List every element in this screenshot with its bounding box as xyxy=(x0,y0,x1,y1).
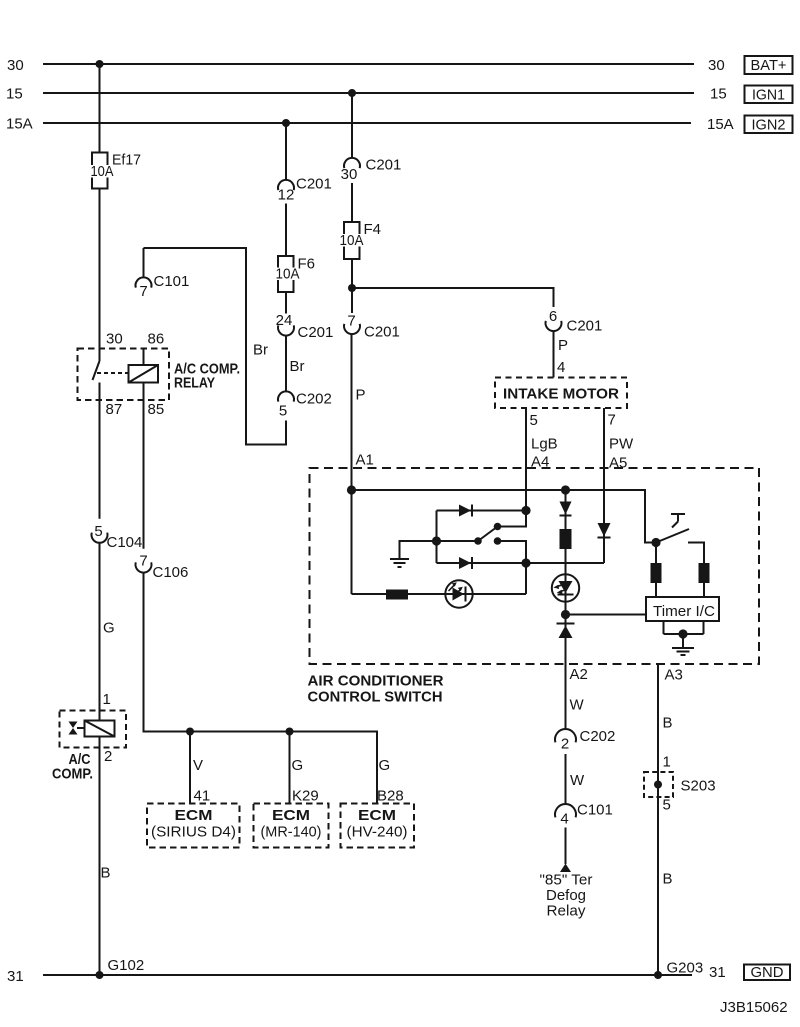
svg-text:A2: A2 xyxy=(570,666,588,683)
svg-text:C201: C201 xyxy=(296,176,332,193)
svg-text:C202: C202 xyxy=(580,728,616,745)
connector C201 pin12 xyxy=(278,176,332,204)
svg-text:AIR CONDITIONER: AIR CONDITIONER xyxy=(308,673,444,690)
fuse Ef17 10A xyxy=(89,152,142,189)
bus 15A xyxy=(6,116,734,134)
svg-text:C201: C201 xyxy=(366,157,402,174)
intake motor M1 xyxy=(495,378,627,409)
off-page arrow to defog relay xyxy=(540,864,593,920)
node G102 xyxy=(96,957,145,979)
wire feed to intake motor C201-6 xyxy=(352,288,554,307)
connector C201 pin24 xyxy=(276,312,334,341)
connector C101 pin7 xyxy=(136,248,190,300)
svg-text:7: 7 xyxy=(347,313,355,330)
connector C202 pin5 xyxy=(278,391,332,420)
svg-text:C101: C101 xyxy=(154,273,190,290)
ECM (MR-140) box xyxy=(254,804,329,848)
svg-text:K29: K29 xyxy=(292,788,319,805)
svg-text:7: 7 xyxy=(608,412,616,429)
wire upper diode row xyxy=(437,510,527,512)
relay K1 A/C COMP. RELAY box xyxy=(78,349,241,401)
resistor R3 xyxy=(651,563,662,583)
svg-text:G: G xyxy=(379,757,391,774)
wire C202-2 to C101-4, label W xyxy=(566,754,586,805)
ground G2 timer xyxy=(672,634,694,655)
svg-text:CONTROL SWITCH: CONTROL SWITCH xyxy=(308,689,443,706)
svg-text:ECM: ECM xyxy=(272,807,310,824)
resistor R1 xyxy=(386,590,408,600)
wire A1 from C201-7 into control switch, labels P A1 xyxy=(352,334,374,594)
svg-text:P: P xyxy=(356,387,366,404)
wire R4 to timer xyxy=(703,583,705,597)
svg-text:6: 6 xyxy=(549,308,557,325)
svg-text:G: G xyxy=(103,620,115,637)
svg-text:C104: C104 xyxy=(107,534,143,551)
svg-text:ECM: ECM xyxy=(175,807,213,824)
diode D3 on A5 xyxy=(598,523,611,538)
wire F6 to C201-24 xyxy=(285,292,287,314)
connector C202 pin2 xyxy=(555,728,615,753)
svg-text:A1: A1 xyxy=(356,452,374,469)
node LED2 / timer junction xyxy=(561,610,570,619)
svg-text:2: 2 xyxy=(561,736,569,753)
svg-text:30: 30 xyxy=(7,57,24,74)
svg-text:S203: S203 xyxy=(681,778,716,795)
svg-text:86: 86 xyxy=(148,331,165,348)
wire drop to ECM mr140, labels G K29 xyxy=(290,732,319,805)
svg-text:30: 30 xyxy=(106,331,123,348)
wire bus30 to fuse Ef17 xyxy=(99,64,101,153)
diode D4 xyxy=(560,502,572,516)
diode D1 xyxy=(459,505,472,517)
wire switch left link xyxy=(436,511,438,564)
connector C101 pin4 xyxy=(555,802,613,828)
svg-text:C101: C101 xyxy=(577,802,613,819)
svg-text:10A: 10A xyxy=(340,232,364,249)
svg-text:G203: G203 xyxy=(667,960,704,977)
wire bus15 to C201-30 xyxy=(351,93,353,158)
wire timer ground stubs xyxy=(664,621,704,634)
svg-text:C201: C201 xyxy=(567,318,603,335)
svg-text:B: B xyxy=(101,865,111,882)
wire C104 to A/C COMP, label G xyxy=(100,543,115,721)
bus 31 ground xyxy=(7,964,726,985)
wire C201-30 to fuse F4 xyxy=(351,183,353,222)
svg-text:F6: F6 xyxy=(298,256,316,273)
wire LED column xyxy=(565,490,567,615)
node bus30/Ef17 junction xyxy=(96,60,104,68)
wire junction to Timer IC xyxy=(566,614,647,616)
diode D2 xyxy=(459,557,472,569)
LED LED1 xyxy=(445,580,472,607)
svg-text:"85" Ter: "85" Ter xyxy=(540,872,593,889)
wire top rail A1 to push switch xyxy=(352,490,657,543)
svg-text:41: 41 xyxy=(194,788,211,805)
svg-text:Br: Br xyxy=(253,342,268,359)
wire C101-4 to defog relay arrow xyxy=(565,828,567,865)
labels G B28 for ECM hv240 xyxy=(377,757,404,805)
resistor R4 xyxy=(699,563,710,583)
node A4 / upper diode junction xyxy=(521,506,530,515)
svg-text:C202: C202 xyxy=(296,391,332,408)
node A1 rail junction xyxy=(347,485,356,494)
wire A2 out of box, labels A2 W xyxy=(566,615,588,730)
svg-text:B: B xyxy=(663,715,673,732)
svg-text:15: 15 xyxy=(710,86,727,103)
svg-text:1: 1 xyxy=(663,754,671,771)
wire R3 to timer xyxy=(655,583,657,597)
fuse F4 10A xyxy=(340,221,382,259)
svg-text:GND: GND xyxy=(751,964,784,981)
svg-text:G102: G102 xyxy=(108,957,145,974)
wire relay 85 down to C106 xyxy=(143,383,145,549)
node lower row junction xyxy=(521,558,530,567)
LED LED2 xyxy=(552,574,579,601)
wire Br loop C101 to C202 xyxy=(144,248,287,445)
svg-text:85: 85 xyxy=(148,401,165,418)
svg-text:F4: F4 xyxy=(364,221,382,238)
svg-text:5: 5 xyxy=(94,523,102,540)
splice S203 xyxy=(644,772,716,797)
svg-text:B28: B28 xyxy=(377,788,404,805)
node bus15A / C201-12 junction xyxy=(282,119,290,127)
svg-text:4: 4 xyxy=(560,811,568,828)
resistor R2 xyxy=(560,529,572,549)
wire A1 bottom row xyxy=(352,593,527,595)
air conditioner control switch box U2 xyxy=(308,468,760,706)
A/C COMP compressor clutch xyxy=(52,711,126,783)
svg-text:LgB: LgB xyxy=(531,436,558,453)
wire intake pin7 to A5, labels 7 PW A5 xyxy=(604,408,634,563)
svg-text:C106: C106 xyxy=(153,564,189,581)
wire relay 87 down to C104 xyxy=(99,383,101,519)
svg-text:RELAY: RELAY xyxy=(174,375,215,392)
svg-text:31: 31 xyxy=(709,964,726,981)
svg-text:(SIRIUS D4): (SIRIUS D4) xyxy=(151,824,236,841)
node ECM branch V junction xyxy=(186,728,194,736)
wire S2 to resistor R3 xyxy=(655,543,657,564)
terminal box IGN1 xyxy=(745,86,793,104)
bus 30 xyxy=(7,57,725,74)
svg-text:COMP.: COMP. xyxy=(52,766,93,783)
svg-text:INTAKE MOTOR: INTAKE MOTOR xyxy=(503,386,619,403)
connector C201 pin6 xyxy=(546,308,603,335)
svg-text:30: 30 xyxy=(341,166,358,183)
timer U1 Timer I/C xyxy=(646,597,719,621)
svg-text:J3B15062: J3B15062 xyxy=(720,999,788,1016)
node bus15 / ignition branch junction xyxy=(348,89,356,97)
svg-text:15A: 15A xyxy=(707,116,734,133)
svg-text:10A: 10A xyxy=(91,163,114,180)
svg-text:G: G xyxy=(292,757,304,774)
node rail / LED column junction xyxy=(561,485,570,494)
svg-text:87: 87 xyxy=(106,401,123,418)
node ECM branch G junction xyxy=(286,728,294,736)
svg-text:10A: 10A xyxy=(276,266,300,283)
svg-text:7: 7 xyxy=(139,553,147,570)
svg-text:W: W xyxy=(570,697,585,714)
svg-text:5: 5 xyxy=(663,797,671,814)
svg-text:(MR-140): (MR-140) xyxy=(261,824,322,841)
svg-text:IGN2: IGN2 xyxy=(752,117,786,134)
svg-text:Timer I/C: Timer I/C xyxy=(653,603,715,620)
connector C201 pin30 xyxy=(341,157,402,184)
wire bottom row riser xyxy=(525,563,527,594)
wire bus15A to C201-12 xyxy=(285,123,287,181)
svg-text:4: 4 xyxy=(557,359,565,376)
connector C104 pin5 xyxy=(91,523,142,551)
svg-text:A3: A3 xyxy=(665,667,683,684)
svg-text:BAT+: BAT+ xyxy=(751,57,787,74)
diode D5 on A2 xyxy=(557,624,575,639)
wire A/C COMP pin2 to bus31, label B xyxy=(100,737,113,976)
svg-text:(HV-240): (HV-240) xyxy=(347,824,408,841)
terminal box GND xyxy=(744,964,790,981)
svg-text:1: 1 xyxy=(103,691,111,708)
node intake feed junction xyxy=(348,284,356,292)
svg-text:PW: PW xyxy=(609,436,634,453)
push switch S2 xyxy=(651,514,704,563)
svg-text:Ef17: Ef17 xyxy=(112,152,141,169)
ECM (SIRIUS D4) box xyxy=(147,804,240,848)
svg-text:Relay: Relay xyxy=(547,903,586,920)
node common junction xyxy=(432,536,441,545)
connector C201 pin7 xyxy=(344,313,400,341)
terminal box BAT+ xyxy=(745,56,793,74)
svg-text:15: 15 xyxy=(6,86,23,103)
wire switch common xyxy=(437,540,479,542)
terminal box IGN2 xyxy=(745,116,793,134)
relay switch contact xyxy=(93,349,129,381)
ground G1 in switch xyxy=(390,541,437,567)
bus 15 xyxy=(6,86,727,103)
fuse F6 10A xyxy=(275,256,316,293)
svg-text:Defog: Defog xyxy=(546,887,586,904)
svg-text:15A: 15A xyxy=(6,116,33,133)
wire C201-6 to intake motor, labels P 4 xyxy=(554,331,569,378)
svg-text:V: V xyxy=(193,757,203,774)
svg-text:B: B xyxy=(663,871,673,888)
node timer ground junction xyxy=(678,629,687,638)
svg-text:31: 31 xyxy=(7,968,24,985)
ECM (HV-240) box xyxy=(341,804,415,848)
svg-text:P: P xyxy=(558,337,568,354)
connector C106 pin7 xyxy=(136,553,189,582)
svg-text:IGN1: IGN1 xyxy=(752,87,785,104)
wire A3 to G203, labels A3 B 1 5 B xyxy=(658,664,683,975)
wire drop to ECM sirius, labels V 41 xyxy=(190,732,210,805)
svg-text:2: 2 xyxy=(104,748,112,765)
wire lower diode row xyxy=(437,562,605,564)
wire C201-12 to fuse F6 xyxy=(285,204,287,257)
svg-text:12: 12 xyxy=(278,187,295,204)
node G203 xyxy=(654,960,703,980)
svg-text:7: 7 xyxy=(139,283,147,300)
wire intake pin5 to A4, labels 5 LgB A4 xyxy=(526,408,558,511)
wire C201-24 to C202-5, label Br xyxy=(286,336,305,392)
relay coil xyxy=(129,349,159,383)
wire Ef17 to relay pin30 xyxy=(99,189,101,349)
svg-text:5: 5 xyxy=(530,412,538,429)
selector switch S1 xyxy=(474,511,526,564)
svg-text:30: 30 xyxy=(708,57,725,74)
svg-text:Br: Br xyxy=(290,358,305,375)
svg-text:W: W xyxy=(570,772,585,789)
svg-text:ECM: ECM xyxy=(358,807,396,824)
svg-text:C201: C201 xyxy=(298,324,334,341)
svg-text:C201: C201 xyxy=(364,324,400,341)
wire F4 down to C201-7 xyxy=(351,259,353,313)
wire C106 to ECM branch xyxy=(144,573,378,804)
svg-text:5: 5 xyxy=(279,403,287,420)
